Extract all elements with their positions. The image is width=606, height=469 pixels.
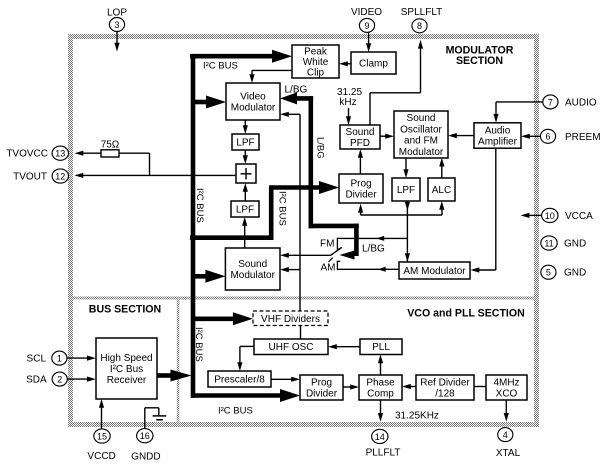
svg-text:9: 9 bbox=[364, 21, 369, 31]
svg-text:Ref Divider: Ref Divider bbox=[420, 378, 470, 389]
wire Sound PFD to Sound Oscillator bbox=[380, 135, 386, 137]
svg-text:kHz: kHz bbox=[339, 97, 356, 108]
svg-text:VCCD: VCCD bbox=[87, 451, 115, 462]
svg-text:10: 10 bbox=[545, 211, 555, 221]
svg-text:PLL: PLL bbox=[372, 342, 390, 353]
pin 14 PLLFLT bbox=[372, 429, 388, 443]
wire LPF to adder bbox=[244, 150, 246, 158]
svg-text:Sound: Sound bbox=[346, 127, 375, 138]
block LPF sound bbox=[392, 178, 420, 201]
block AM Modulator bbox=[399, 262, 470, 279]
wire L/BG horizontal middle bbox=[309, 224, 359, 229]
block LPF video 2 bbox=[231, 201, 259, 217]
wire PREEM to Audio Amplifier bbox=[529, 135, 541, 137]
svg-text:Video: Video bbox=[240, 92, 266, 103]
svg-text:TVOVCC: TVOVCC bbox=[6, 149, 48, 160]
svg-text:SECTION: SECTION bbox=[456, 55, 503, 67]
wire LPF down to AM Modulator bbox=[406, 201, 408, 262]
block Sound Oscillator and FM Modulator bbox=[394, 111, 448, 158]
svg-text:I²C BUS: I²C BUS bbox=[193, 327, 204, 362]
wire Phase Comp to PLL bbox=[380, 361, 382, 376]
wire L/BG vertical to switch bbox=[354, 224, 359, 256]
svg-text:PFD: PFD bbox=[350, 138, 370, 149]
wire feedback connector to Prog Divider and ALC bbox=[361, 214, 442, 216]
wire PLL to UHF OSC bbox=[336, 346, 360, 348]
wire TVOUT from adder bbox=[83, 174, 236, 176]
svg-text:Phase: Phase bbox=[366, 378, 395, 389]
adder (+) bbox=[236, 164, 256, 183]
svg-text:XCO: XCO bbox=[496, 389, 518, 400]
wire Prog Divider to Phase Comp bbox=[343, 386, 352, 388]
svg-text:TVOUT: TVOUT bbox=[13, 172, 47, 183]
wire L/BG vertical upper bbox=[308, 96, 313, 228]
pin 5 GND bbox=[541, 265, 556, 279]
block High Speed I2C Bus Receiver bbox=[96, 338, 157, 399]
svg-text:I²C BUS: I²C BUS bbox=[218, 406, 253, 417]
svg-text:VHF Dividers: VHF Dividers bbox=[261, 314, 320, 325]
svg-text:BUS SECTION: BUS SECTION bbox=[89, 304, 161, 316]
svg-text:75Ω: 75Ω bbox=[101, 140, 120, 151]
wire XCO to Ref Divider bbox=[474, 386, 486, 388]
svg-text:VCCA: VCCA bbox=[565, 211, 593, 222]
wire Ref Divider to Phase Comp bbox=[409, 386, 417, 388]
AM switch contact bracket bbox=[337, 261, 340, 269]
wire Video Modulator to Sound Modulator / VHF Dividers bbox=[280, 112, 289, 117]
block Sound Modulator bbox=[225, 248, 280, 290]
wire I2C bus branch horizontal bbox=[190, 235, 271, 240]
wire Sound PFD to SPLLFLT bbox=[418, 40, 423, 49]
block Phase Comp bbox=[359, 375, 402, 400]
wire Phase Comp to PLLFLT bbox=[380, 400, 382, 416]
svg-text:GNDD: GNDD bbox=[131, 452, 160, 463]
svg-text:1: 1 bbox=[57, 354, 62, 364]
block 4MHz XCO bbox=[486, 375, 527, 400]
block Peak White Clip bbox=[292, 45, 339, 78]
svg-text:5: 5 bbox=[546, 268, 551, 278]
wire I2C bus arrow into VHF Dividers bbox=[193, 316, 234, 321]
svg-text:Amplifier: Amplifier bbox=[478, 137, 518, 148]
wire I2C bus bottom horizontal arrow into Prog Divider (PLL) bbox=[191, 393, 283, 398]
svg-text:SDA: SDA bbox=[26, 375, 47, 386]
wire SDA to receiver bbox=[67, 378, 89, 380]
svg-text:6: 6 bbox=[545, 132, 550, 142]
svg-text:AUDIO: AUDIO bbox=[565, 97, 597, 108]
svg-text:PREEM: PREEM bbox=[565, 132, 601, 143]
FM switch contact bracket bbox=[337, 238, 340, 249]
svg-text:15: 15 bbox=[97, 431, 107, 441]
pin 7 AUDIO bbox=[543, 95, 558, 109]
wire VCCD to receiver bbox=[101, 406, 103, 430]
svg-text:Receiver: Receiver bbox=[107, 375, 147, 386]
svg-text:Modulator: Modulator bbox=[231, 103, 276, 114]
svg-text:AM Modulator: AM Modulator bbox=[403, 266, 466, 277]
wire L/BG arrow at FM/AM switch bbox=[340, 251, 355, 260]
wire AM Modulator to AM contact bbox=[340, 268, 399, 270]
wire I2C bus arrow into Video Modulator bbox=[193, 100, 208, 105]
svg-text:Sound: Sound bbox=[407, 113, 436, 124]
svg-text:I²C BUS: I²C BUS bbox=[203, 61, 238, 72]
block LPF video 1 bbox=[232, 134, 259, 150]
wire SCL to receiver bbox=[67, 357, 89, 359]
wire VCCA into IC bbox=[528, 214, 541, 216]
block Sound PFD bbox=[340, 125, 380, 149]
svg-text:7: 7 bbox=[548, 97, 553, 107]
pin 16 GNDD bbox=[137, 429, 153, 443]
svg-text:Prog: Prog bbox=[350, 179, 371, 190]
svg-text:Comp: Comp bbox=[367, 389, 394, 400]
wire I2C bus arrow into Sound Modulator bbox=[193, 274, 207, 279]
svg-text:SCL: SCL bbox=[27, 354, 47, 365]
svg-text:3: 3 bbox=[114, 20, 119, 30]
block VHF Dividers (dashed) bbox=[253, 311, 328, 326]
block Audio Amplifier bbox=[474, 123, 521, 148]
svg-text:FM: FM bbox=[320, 238, 334, 249]
wire I2C bus main vertical bbox=[191, 54, 196, 398]
block Prescaler/8 bbox=[208, 371, 271, 387]
svg-text:PLLFLT: PLLFLT bbox=[366, 448, 401, 459]
resistor 75 ohm bbox=[101, 150, 119, 157]
wire I2C bus top horizontal to Peak White Clip bbox=[190, 54, 274, 59]
svg-text:Oscillator: Oscillator bbox=[400, 124, 442, 135]
svg-text:Clip: Clip bbox=[307, 68, 325, 79]
pin 10 VCCA bbox=[542, 208, 558, 222]
FM/AM switch arm bbox=[331, 247, 342, 255]
svg-text:Modulator: Modulator bbox=[230, 270, 275, 281]
IC outer frame top edge bbox=[68, 34, 539, 39]
wire I2C bus branch arrow into Prog Divider bbox=[269, 185, 321, 190]
svg-text:13: 13 bbox=[55, 149, 65, 159]
wire UHF OSC to Prescaler bbox=[240, 345, 254, 347]
wire Audio Amplifier to AM Modulator bbox=[495, 148, 497, 270]
svg-text:8: 8 bbox=[417, 21, 422, 31]
wire thick arrow from I2C Bus Receiver to bus bbox=[157, 373, 173, 378]
block Clamp bbox=[351, 52, 396, 74]
wire 31.25kHz into Sound PFD bbox=[348, 108, 350, 119]
svg-text:GND: GND bbox=[564, 268, 586, 279]
svg-text:L/BG: L/BG bbox=[362, 244, 385, 255]
pin 15 VCCD bbox=[94, 429, 110, 443]
wire LOP into IC bbox=[116, 31, 118, 45]
block ALC bbox=[428, 178, 455, 201]
wire ALC to Sound Oscillator bbox=[441, 164, 443, 178]
svg-text:LOP: LOP bbox=[107, 8, 127, 19]
svg-text:XTAL: XTAL bbox=[496, 448, 521, 459]
svg-text:Audio: Audio bbox=[485, 126, 511, 137]
wire Audio Amplifier to Sound Oscillator bbox=[456, 135, 474, 137]
svg-text:LPF: LPF bbox=[236, 138, 254, 149]
wire L/BG arrow into Video Modulator right bbox=[280, 92, 297, 104]
svg-text:LPF: LPF bbox=[397, 185, 415, 196]
svg-text:High Speed: High Speed bbox=[100, 353, 152, 364]
svg-text:Divider: Divider bbox=[345, 190, 377, 201]
wire LPF2 to adder bbox=[244, 190, 246, 202]
wire TVOVCC with 75 ohm resistor bbox=[83, 152, 101, 154]
section divider vertical (BUS/VCO) bbox=[177, 300, 180, 423]
IC outer frame left edge bbox=[68, 39, 73, 422]
block PLL bbox=[360, 339, 402, 355]
svg-text:I²C BUS: I²C BUS bbox=[277, 191, 288, 226]
svg-text:Modulator: Modulator bbox=[399, 147, 444, 158]
block Prog Divider (sound) bbox=[339, 174, 383, 203]
svg-text:LPF: LPF bbox=[236, 205, 254, 216]
block Video Modulator U-VM bbox=[226, 83, 280, 120]
wire Video Modulator to LPF bbox=[244, 120, 246, 128]
IC outer frame bottom edge bbox=[68, 422, 539, 427]
block Ref Divider /128 bbox=[416, 375, 474, 400]
svg-text:L/BG: L/BG bbox=[285, 85, 308, 96]
svg-text:White: White bbox=[303, 57, 329, 68]
svg-text:and FM: and FM bbox=[404, 136, 438, 147]
wire Clamp to Peak White Clip bbox=[347, 63, 351, 65]
svg-text:Prescaler/8: Prescaler/8 bbox=[214, 375, 265, 386]
svg-text:12: 12 bbox=[55, 171, 65, 181]
wire FM contact line bbox=[340, 237, 407, 239]
block UHF OSC bbox=[254, 339, 328, 355]
svg-text:VIDEO: VIDEO bbox=[351, 7, 382, 18]
svg-text:Sound: Sound bbox=[238, 259, 267, 270]
wire Prog Divider to Sound PFD bbox=[359, 156, 361, 175]
svg-text:I²C BUS: I²C BUS bbox=[194, 188, 205, 223]
svg-text:Divider: Divider bbox=[306, 389, 338, 400]
svg-text:ALC: ALC bbox=[432, 185, 451, 196]
svg-text:Peak: Peak bbox=[304, 46, 328, 57]
svg-text:16: 16 bbox=[140, 431, 150, 441]
wire switch common to Sound Modulator bbox=[288, 254, 331, 256]
svg-text:Prog: Prog bbox=[311, 378, 332, 389]
wire Peak White Clip to Video Modulator bbox=[252, 69, 292, 71]
wire AUDIO to Audio Amplifier bbox=[496, 101, 543, 103]
svg-text:UHF OSC: UHF OSC bbox=[269, 342, 314, 353]
wire Prescaler to Prog Divider bbox=[271, 378, 292, 380]
svg-text:I²C Bus: I²C Bus bbox=[110, 364, 143, 375]
section divider horizontal bbox=[73, 297, 534, 300]
block Prog Divider (PLL) bbox=[300, 375, 343, 400]
svg-text:4: 4 bbox=[503, 430, 508, 440]
wire XCO to XTAL bbox=[505, 400, 507, 416]
wire Sound Modulator to LPF2 bbox=[244, 224, 246, 249]
svg-text:11: 11 bbox=[544, 238, 553, 248]
ground symbol bbox=[144, 408, 146, 429]
pin 4 XTAL bbox=[498, 428, 513, 442]
svg-text:SPLLFLT: SPLLFLT bbox=[401, 7, 443, 18]
svg-text:14: 14 bbox=[375, 432, 385, 442]
svg-text:L/BG: L/BG bbox=[315, 137, 326, 159]
wire VIDEO to Clamp bbox=[368, 32, 370, 46]
svg-text:VCO and PLL SECTION: VCO and PLL SECTION bbox=[407, 308, 525, 320]
wire Sound Oscillator to LPF bbox=[405, 158, 407, 172]
wire I2C bus branch vertical bbox=[269, 188, 274, 241]
svg-text:Clamp: Clamp bbox=[359, 59, 388, 70]
svg-text:/128: /128 bbox=[435, 389, 455, 400]
svg-text:31.25KHz: 31.25KHz bbox=[395, 411, 439, 422]
svg-text:4MHz: 4MHz bbox=[493, 378, 519, 389]
svg-text:2: 2 bbox=[57, 375, 62, 385]
pin 6 PREEM bbox=[540, 129, 555, 143]
pin 11 GND bbox=[541, 236, 557, 250]
wire VHF Dividers to UHF OSC bbox=[300, 326, 302, 340]
svg-text:GND: GND bbox=[564, 239, 586, 250]
IC outer frame right edge bbox=[534, 39, 539, 422]
svg-text:AM: AM bbox=[321, 262, 336, 273]
